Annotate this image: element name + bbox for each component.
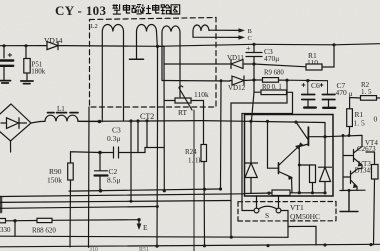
diode D-right in module: [319, 167, 332, 193]
node VD11-C3: [252, 62, 255, 65]
node x325 base junction: [323, 135, 326, 138]
wire module bottom rail: [245, 192, 326, 195]
T-bar ground stub: [340, 191, 358, 212]
wire main collector rail y120.5: [78, 121, 325, 123]
resistor R9: [264, 70, 284, 77]
capacitor C2 (8.5u): [107, 167, 120, 185]
wire VD14 to L2: [62, 45, 158, 48]
wire top AC rail: [0, 45, 45, 47]
node emitter branch: [298, 164, 301, 167]
node busB 3: [266, 244, 269, 247]
node E junction: [137, 218, 140, 221]
resistor R1 (110): [307, 51, 318, 67]
node busB 4: [323, 243, 326, 246]
wire driver base riser: [268, 121, 279, 168]
wire VT3 emitter row: [340, 189, 365, 191]
wire CT2 drop 3: [146, 121, 148, 148]
wire x219 drop from VD12 row: [220, 81, 223, 189]
inductor L1: [57, 105, 65, 113]
wire W2 right leg down: [156, 46, 159, 246]
wire E row: [6, 220, 140, 221]
wire emitter to resistor: [299, 164, 312, 166]
node module top 1: [249, 120, 252, 123]
label bottom faint 1: [89, 247, 149, 251]
node R24 bottom: [203, 188, 206, 191]
wire VT4-VT3 base rail: [342, 136, 344, 191]
transistor VT4: [357, 139, 378, 153]
wire y190 row: [69, 189, 220, 191]
edge smudge left: [0, 197, 2, 212]
resistor R1 (1.5 vertical): [354, 110, 366, 128]
wire VD12 row: [162, 80, 230, 83]
wire RT right: [191, 101, 204, 145]
ground (left capacitor): [0, 81, 11, 83]
node VD12 drop: [220, 79, 223, 82]
diode VD11: [227, 54, 244, 62]
node y201 x131: [130, 200, 133, 203]
node R bottom: [311, 191, 314, 194]
module pin stubs: [257, 196, 279, 208]
winding W3: [162, 26, 180, 97]
capacitor C3 (0.3u): [107, 126, 121, 144]
node R9 right: [285, 79, 288, 82]
diode inside bridge: [1, 118, 27, 129]
resistor R-edge: [372, 165, 379, 180]
node power collector top: [294, 121, 297, 124]
arrow E: [138, 220, 140, 225]
node D-right bottom: [323, 191, 326, 194]
wire bridge bottom drop: [10, 141, 12, 152]
node module bottom 1: [267, 192, 270, 195]
switch S: [254, 208, 259, 213]
node emitter row: [348, 189, 351, 192]
node CT2 tap 1: [129, 119, 132, 122]
wire y195 long row: [0, 194, 245, 197]
transistor VT3: [355, 160, 375, 175]
node y135 x343: [342, 134, 345, 137]
node E wire: [13, 219, 16, 222]
wire y201 row: [0, 201, 231, 203]
wire VD11 row: [164, 63, 230, 65]
node busA x231: [230, 236, 233, 239]
wire module to VT4 (y135.5): [325, 135, 362, 136]
node CT2 tap 3: [145, 119, 148, 122]
node module top 2: [266, 120, 269, 123]
resistor R-bottom in module: [272, 190, 290, 196]
node top-left junction 1: [2, 44, 5, 47]
bus A y237: [0, 236, 288, 237]
node y135 x349: [348, 134, 351, 137]
bridge rectifier: [0, 104, 31, 141]
wire CT2 drop 2: [137, 121, 139, 153]
winding W1: [102, 25, 123, 122]
resistor R24: [185, 148, 203, 165]
node y190-x219: [219, 187, 222, 190]
diode VD14: [44, 36, 63, 45]
wire main top rail: [158, 44, 380, 47]
node x164 row1: [163, 189, 166, 192]
potentiometer RT: [175, 98, 191, 103]
winding W2: [137, 25, 158, 60]
wire rail to C6/C7: [287, 79, 328, 82]
resistor R2 (1.5): [361, 81, 372, 96]
node busB 2: [203, 244, 206, 247]
wire C3 node down: [252, 64, 255, 121]
title: [55, 3, 107, 18]
wire S out: [281, 211, 288, 238]
ground (P51): [21, 81, 33, 84]
node C3 top: [252, 43, 255, 46]
node C2 bottom: [99, 189, 103, 193]
diode VD12: [228, 84, 246, 92]
wire y226 right: [288, 226, 316, 245]
capacitor C6: [311, 81, 320, 90]
bus B y247: [0, 244, 380, 247]
node top-left junction 2: [24, 44, 27, 47]
node busB 1: [155, 245, 158, 248]
node VD12-R0: [252, 78, 255, 81]
node busB 5: [369, 243, 372, 246]
wire x325 riser inside module: [324, 123, 326, 168]
wire into S: [242, 210, 254, 212]
transistor Q-power in module: [307, 127, 309, 145]
node y207 x157: [156, 205, 159, 208]
node L1 junction: [98, 120, 102, 124]
wire x89 drop: [88, 107, 91, 247]
wire to arrow B: [209, 29, 240, 31]
node W2 junction: [156, 45, 159, 48]
resistor R0: [262, 84, 282, 91]
capacitor C-left (to ground): [3, 46, 5, 80]
wire CT2 drop 1: [130, 121, 132, 201]
transformer L2 dashed box: [90, 18, 217, 108]
transistor Q-driver in module: [278, 163, 280, 174]
VT1 module box: [245, 115, 334, 197]
winding W4: [193, 25, 209, 37]
resistor R90: [47, 167, 62, 185]
node R1 top: [332, 43, 335, 46]
wire R0 return: [242, 114, 293, 211]
wire x253 bottom exit: [193, 110, 195, 251]
diode D-left in module: [245, 121, 258, 193]
node C3(0.3) left: [98, 151, 102, 155]
resistor P51: [25, 46, 27, 59]
wire node-to-VD11: [158, 46, 165, 191]
wire to arrow C: [193, 36, 240, 38]
resistor R in module: [310, 165, 316, 183]
wire 330 node drop: [14, 221, 16, 237]
resistor R88: [37, 218, 52, 222]
capacitor C3 (470u): [246, 44, 262, 64]
node CT2 tap 2: [136, 119, 139, 122]
wire L1 to rail: [78, 120, 100, 122]
wire y207 row: [0, 207, 158, 209]
wire RT left: [164, 100, 175, 102]
wire bridge to L1: [31, 121, 45, 123]
resistor 330: [0, 219, 6, 223]
dashed box S/VT1: [238, 202, 336, 222]
node emitter bottom: [298, 191, 301, 194]
capacitor C7: [336, 81, 353, 98]
winding W2 core bar: [130, 58, 144, 60]
wire R9 return: [231, 80, 287, 237]
